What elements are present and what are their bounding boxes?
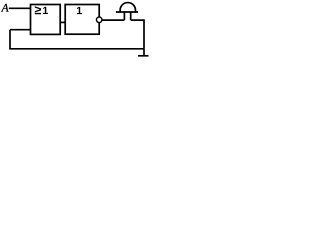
output bubble [96,17,102,23]
wire bell to right corner [131,20,144,49]
bell left leg [123,12,125,20]
wire A input [9,7,31,9]
label 1 of D1 [43,7,48,14]
bell right leg [130,12,132,20]
wire bubble to bell [102,19,124,21]
label >= of D1 [35,6,41,14]
ground bar [138,55,149,57]
OR gate box D1 [31,5,61,35]
wire bottom feedback [10,30,144,49]
wire feedback input [10,29,31,31]
label 1 of D2 [77,7,82,14]
ground stub [143,49,145,56]
amplifier box D2 [65,5,99,35]
bell dome [120,3,135,12]
node A label [1,4,9,12]
wire between gates [60,21,65,23]
bell base [116,11,138,13]
